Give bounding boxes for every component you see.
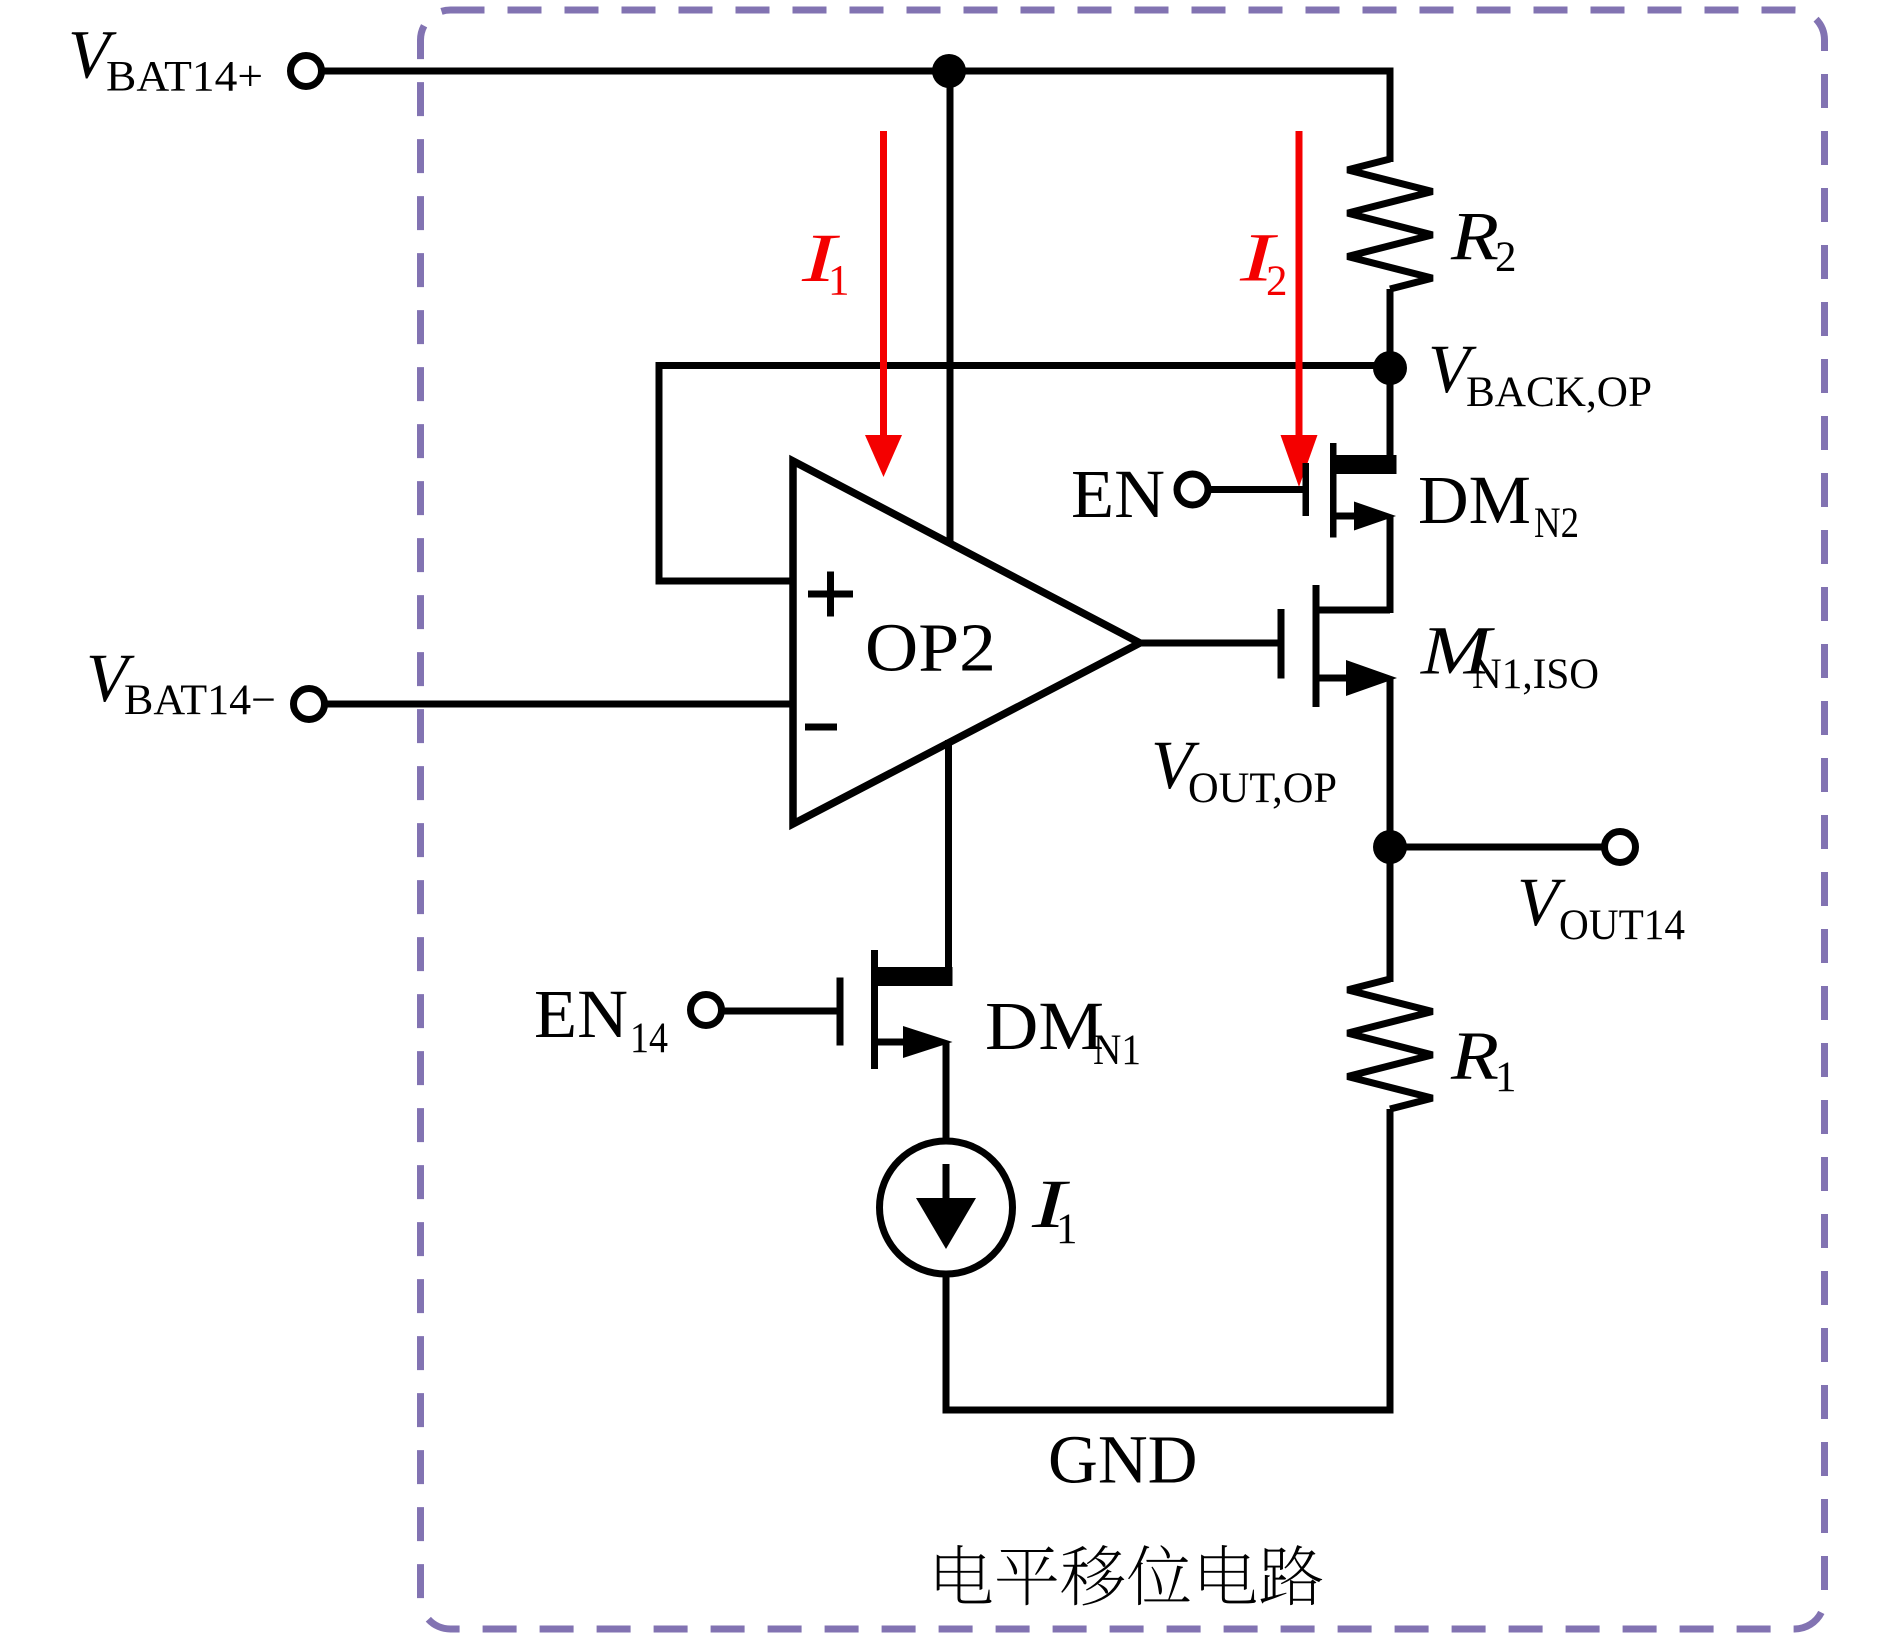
svg-text:14: 14 <box>630 1015 668 1062</box>
wire: feedback from VBACK,OP to op-amp + input <box>659 366 1390 582</box>
svg-text:N1: N1 <box>1093 1027 1141 1074</box>
svg-text:DM: DM <box>1418 462 1531 538</box>
transistor MN1,ISO gate bar <box>1278 609 1285 679</box>
transistor MN1,ISO channel bar <box>1313 585 1320 707</box>
wire: current source to bottom rail <box>943 1274 950 1414</box>
resistor R1 <box>1348 979 1433 1109</box>
transistor DMN2 gate lead and EN terminal <box>1177 474 1208 505</box>
current arrow I1 (red) <box>880 131 887 437</box>
svg-text:BAT14+: BAT14+ <box>106 54 263 101</box>
wire: op-amp output to MN1,ISO gate <box>1136 640 1278 647</box>
transistor DMN1 source with arrow <box>878 1039 910 1046</box>
transistor DMN1 thick drain bar (depletion) <box>878 967 953 986</box>
caption: level-shift circuit (Chinese) <box>937 1545 1322 1605</box>
svg-text:1: 1 <box>1056 1206 1078 1253</box>
current arrow I2 (red) <box>1296 131 1303 437</box>
transistor DMN1 gate bar <box>837 978 844 1046</box>
svg-text:BACK,OP: BACK,OP <box>1466 369 1652 416</box>
transistor DMN2 thick drain bar (depletion) <box>1337 455 1397 474</box>
terminal VBAT14+ <box>291 56 322 87</box>
svg-text:OUT14: OUT14 <box>1559 902 1685 949</box>
node VBACK,OP <box>1373 351 1407 385</box>
transistor DMN2 channel bar <box>1330 443 1337 538</box>
op-amp OP2 <box>793 461 1140 824</box>
wire: R2 bottom to VBACK,OP node <box>1387 289 1394 372</box>
op-amp - input marking <box>805 724 837 731</box>
wire: node to VOUT14 terminal <box>1390 844 1605 851</box>
transistor MN1,ISO drain lead <box>1320 610 1391 613</box>
transistor DMN2 gate bar <box>1303 463 1310 516</box>
svg-text:EN: EN <box>1071 456 1165 532</box>
node: junction of VBAT14+ rail and op-amp supply <box>932 54 966 88</box>
terminal VBAT14- <box>294 689 325 720</box>
terminal VOUT14 <box>1605 832 1636 863</box>
svg-text:DM: DM <box>985 988 1104 1064</box>
wire: right column top segment <box>1387 68 1394 163</box>
wire: VBAT14- to op-amp - input <box>325 701 794 708</box>
transistor DMN1 channel bar <box>871 950 878 1069</box>
svg-text:R: R <box>1450 1018 1499 1094</box>
svg-text:2: 2 <box>1495 234 1517 281</box>
op-amp + input marking <box>808 591 853 598</box>
transistor DMN2 drain lead <box>1387 368 1394 456</box>
transistor MN1,ISO source with arrow <box>1320 675 1353 682</box>
svg-text:N2: N2 <box>1534 500 1579 547</box>
dashed box: level-shift circuit boundary <box>421 10 1825 1629</box>
svg-text:R: R <box>1450 198 1499 274</box>
svg-text:1: 1 <box>1495 1054 1517 1101</box>
svg-text:N1,ISO: N1,ISO <box>1472 651 1599 698</box>
wire: VOUT14 node to R1 <box>1387 847 1394 982</box>
svg-text:OP2: OP2 <box>865 610 996 686</box>
current source I1 <box>880 1141 1013 1274</box>
wire: op-amp positive supply (x=950) <box>947 71 954 547</box>
resistor R2 <box>1348 159 1433 289</box>
transistor DMN2 source with arrow <box>1337 513 1363 520</box>
svg-text:GND: GND <box>1048 1421 1198 1497</box>
wire: op-amp negative supply to DMN1 drain <box>945 740 952 970</box>
svg-text:OUT,OP: OUT,OP <box>1188 765 1337 812</box>
wire: VBAT14+ to top-right corner <box>322 68 1391 75</box>
wire: R1 to bottom rail <box>1387 1109 1394 1414</box>
node VOUT14 <box>1373 830 1407 864</box>
wire: GND bottom rail <box>943 1407 1394 1414</box>
svg-text:1: 1 <box>828 258 850 305</box>
svg-text:EN: EN <box>534 976 628 1052</box>
transistor DMN1 gate lead and EN14 terminal <box>691 995 722 1026</box>
svg-text:2: 2 <box>1266 258 1288 305</box>
svg-text:BAT14−: BAT14− <box>124 677 276 724</box>
